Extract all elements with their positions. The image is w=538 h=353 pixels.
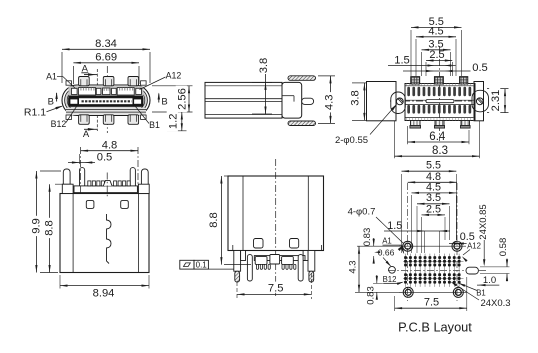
mount hole bottom-left bbox=[403, 287, 413, 297]
svg-text:0.66: 0.66 bbox=[378, 247, 395, 257]
svg-text:3.8: 3.8 bbox=[349, 90, 361, 106]
mount hole bottom-right bbox=[453, 287, 463, 297]
svg-text:B: B bbox=[48, 96, 54, 107]
dimension 4.3 side view bbox=[318, 75, 335, 77]
center block bbox=[270, 255, 280, 265]
top bar bbox=[74, 186, 137, 193]
left leg flange bbox=[241, 251, 246, 261]
hole crosshair top bbox=[399, 245, 466, 247]
body rear bbox=[228, 176, 324, 251]
flatness leader line to seating plane bbox=[208, 268, 233, 270]
PCB ladder 2.5 bbox=[421, 217, 423, 253]
dimension 6.69 bbox=[72, 66, 74, 84]
dimension 8.8 bbox=[55, 183, 72, 185]
svg-text:4.8: 4.8 bbox=[102, 140, 118, 152]
svg-text:8.8: 8.8 bbox=[208, 212, 220, 228]
bottom lead pin hatched bbox=[288, 121, 316, 126]
left mount plate bbox=[367, 82, 397, 121]
contact band tick hatch bbox=[80, 88, 81, 91]
bottom bar bbox=[254, 256, 305, 261]
lower shell band bbox=[66, 108, 146, 115]
svg-text:A12: A12 bbox=[467, 242, 481, 251]
svg-text:B1: B1 bbox=[476, 289, 486, 298]
svg-text:0.5: 0.5 bbox=[472, 62, 488, 74]
svg-text:P.C.B Layout: P.C.B Layout bbox=[398, 320, 472, 335]
center zigzag split line bbox=[107, 214, 112, 264]
left outer leg bbox=[234, 251, 241, 272]
right outer post base bbox=[138, 184, 149, 193]
label B12 with leader bbox=[382, 275, 397, 283]
svg-text:0.58: 0.58 bbox=[498, 238, 509, 257]
rear teeth left bbox=[256, 264, 258, 269]
shell bottom tabs bbox=[79, 115, 90, 125]
shell bottom end bumps bbox=[66, 115, 72, 119]
svg-text:24X0.3: 24X0.3 bbox=[480, 298, 510, 309]
svg-text:6.69: 6.69 bbox=[95, 51, 117, 63]
top edge knurl ticks bbox=[406, 84, 408, 86]
left peg hatched bbox=[235, 271, 240, 282]
svg-text:6.4: 6.4 bbox=[429, 131, 446, 143]
right outer leg bbox=[308, 251, 315, 272]
upper pad row 24X0.85 bbox=[404, 256, 407, 259]
PCB ladder 5.5 bbox=[401, 174, 403, 253]
contact band white slots bbox=[72, 88, 78, 94]
svg-text:B12: B12 bbox=[383, 275, 397, 284]
lower shell lines bbox=[66, 109, 146, 111]
dimension 2.31 front view bbox=[487, 88, 509, 90]
dimension ladder 5.5 bbox=[410, 30, 412, 76]
side wall lines bbox=[242, 176, 244, 251]
svg-text:2.31: 2.31 bbox=[490, 90, 502, 112]
svg-text:9.9: 9.9 bbox=[30, 218, 42, 234]
dimension 2.56 right bbox=[152, 85, 193, 87]
dimension ladder 3.5 bbox=[421, 52, 423, 76]
right inner post bbox=[130, 168, 135, 194]
dim 0.58 bbox=[480, 266, 510, 268]
svg-text:1.5: 1.5 bbox=[394, 55, 410, 67]
svg-text:0.83: 0.83 bbox=[366, 286, 377, 305]
center lens bbox=[426, 100, 454, 103]
body side wall left bbox=[72, 194, 74, 273]
svg-text:A: A bbox=[83, 129, 90, 140]
bottom tabs front bbox=[411, 121, 421, 126]
center hump bbox=[103, 181, 112, 186]
dimension 8.8 rear bbox=[224, 175, 231, 177]
svg-text:2.5: 2.5 bbox=[429, 49, 444, 61]
left pad block bbox=[255, 257, 267, 265]
right pad block bbox=[282, 257, 294, 265]
pad row mid guide lines bbox=[403, 260, 464, 262]
middle slot lines bbox=[405, 99, 475, 101]
right peg hatched bbox=[309, 271, 314, 282]
body seam lines bbox=[205, 98, 282, 100]
centerline vertical bbox=[439, 46, 441, 141]
svg-text:B: B bbox=[161, 96, 167, 107]
PCB ladder 3.5 bbox=[416, 206, 418, 253]
flatness feature control frame bbox=[180, 260, 194, 269]
svg-text:0.1: 0.1 bbox=[196, 260, 208, 269]
svg-text:4.3: 4.3 bbox=[347, 260, 358, 273]
left inner leg bbox=[247, 255, 252, 281]
right inner leg bbox=[298, 255, 303, 281]
left lobe bbox=[391, 92, 406, 114]
dimension 4.8 top bbox=[81, 150, 138, 152]
shell top end bumps bbox=[66, 81, 72, 85]
body side wall right bbox=[137, 194, 139, 273]
side hole phi0.66 bbox=[389, 266, 396, 273]
tongue upper bar bbox=[69, 96, 144, 98]
body bbox=[60, 194, 149, 273]
top lead pin hatched bbox=[288, 76, 316, 81]
dimension 1.2 right bbox=[167, 130, 187, 132]
hole centerline right column bbox=[456, 183, 458, 301]
dim 0.83 lower left bbox=[373, 282, 400, 284]
PCB dim 0.5 bbox=[449, 243, 470, 245]
dim 0.83 upper left bbox=[357, 245, 402, 247]
section B marker left bbox=[56, 93, 58, 102]
dimension 3.8 side view bbox=[252, 81, 272, 83]
tongue middle white row bbox=[69, 98, 144, 105]
corner step right bbox=[321, 245, 323, 251]
rear block step bbox=[282, 95, 294, 97]
upper pin row bbox=[407, 87, 410, 96]
svg-text:B12: B12 bbox=[51, 119, 67, 129]
svg-text:4.5: 4.5 bbox=[428, 25, 443, 37]
svg-text:24X0.85: 24X0.85 bbox=[478, 204, 489, 239]
svg-text:0.5: 0.5 bbox=[460, 231, 475, 243]
shell third wall bbox=[67, 90, 145, 111]
svg-text:A12: A12 bbox=[166, 71, 182, 81]
mount hole top-right bbox=[452, 241, 462, 251]
tongue lower bar bbox=[69, 105, 144, 107]
window squares bbox=[254, 239, 264, 249]
svg-text:2.5: 2.5 bbox=[426, 203, 441, 215]
shell top tabs bbox=[79, 77, 90, 86]
left screw hole bbox=[396, 98, 403, 105]
svg-text:7.5: 7.5 bbox=[424, 297, 439, 309]
svg-text:0.83: 0.83 bbox=[362, 228, 373, 247]
PCB ladder 4.8 bbox=[408, 181, 457, 183]
rear block bbox=[282, 82, 302, 118]
svg-text:2-φ0.55: 2-φ0.55 bbox=[335, 135, 368, 146]
svg-text:4-φ0.7: 4-φ0.7 bbox=[348, 207, 376, 218]
svg-text:8.8: 8.8 bbox=[43, 220, 55, 236]
svg-text:B1: B1 bbox=[149, 120, 160, 130]
section line A dashed bbox=[96, 69, 98, 85]
shell outer stadium bbox=[62, 85, 150, 116]
right mount plate bbox=[474, 82, 484, 121]
body inner lines bbox=[205, 85, 282, 87]
centerline dashdot left bbox=[80, 147, 82, 194]
shell inner stadium bbox=[65, 87, 148, 113]
svg-text:R1.1: R1.1 bbox=[24, 106, 46, 118]
svg-text:8.3: 8.3 bbox=[432, 145, 448, 157]
centerline vertical bbox=[106, 66, 108, 133]
dim 4.3 left bbox=[355, 291, 402, 293]
corner step left bbox=[232, 245, 234, 251]
top tabs front bbox=[411, 77, 420, 84]
dimension ladder 2.5 bbox=[425, 62, 427, 76]
right lobe bbox=[472, 90, 489, 112]
centerline bbox=[275, 159, 277, 298]
window square right bbox=[121, 201, 129, 209]
dimension 0.5 top bbox=[78, 154, 80, 164]
svg-text:A1: A1 bbox=[46, 71, 57, 81]
tongue center dashed contact row bbox=[82, 100, 132, 102]
dim 7.5 bottom bbox=[394, 296, 396, 311]
section B marker right bbox=[158, 94, 160, 103]
row centerline horizontal bbox=[388, 270, 486, 272]
svg-text:A1: A1 bbox=[382, 236, 392, 245]
svg-text:2.56: 2.56 bbox=[176, 88, 188, 110]
dimension 8.34 bbox=[61, 52, 63, 83]
section A marker bottom bbox=[84, 128, 97, 130]
svg-text:8.94: 8.94 bbox=[93, 288, 115, 300]
svg-text:1.2: 1.2 bbox=[167, 114, 179, 130]
dimension ladder 4.5 bbox=[415, 39, 417, 76]
svg-text:7.5: 7.5 bbox=[268, 282, 284, 294]
shell body front bbox=[405, 84, 475, 121]
hole crosshair bottom bbox=[399, 291, 467, 293]
dimension 6.4 bbox=[407, 126, 409, 144]
right leg flange bbox=[303, 251, 308, 261]
svg-text:5.5: 5.5 bbox=[426, 160, 441, 172]
lower pad row bbox=[404, 273, 407, 276]
rear teeth right bbox=[282, 264, 284, 269]
dimension 8.3 bbox=[394, 121, 396, 158]
comb teeth right group bbox=[114, 181, 117, 186]
dimension 7.5 rear bbox=[236, 282, 238, 299]
tongue left end block B12 side bbox=[69, 96, 80, 106]
centerline dashdot right bbox=[137, 147, 139, 194]
label A12 with leader bbox=[467, 241, 482, 249]
left outer post base bbox=[62, 184, 73, 193]
lower pin row bbox=[407, 105, 410, 114]
right tab pad 1.0 bbox=[466, 267, 478, 274]
dimension 9.9 bbox=[40, 170, 61, 172]
dimension 8.94 bbox=[59, 275, 61, 289]
svg-text:4.3: 4.3 bbox=[324, 95, 336, 111]
PCB ladder 4.5 bbox=[411, 195, 413, 253]
interior top contact band bbox=[69, 86, 144, 96]
rear tab bbox=[302, 98, 314, 104]
svg-text:8.34: 8.34 bbox=[95, 38, 117, 50]
dim 0.5 text bbox=[458, 230, 478, 241]
svg-text:3.5: 3.5 bbox=[426, 192, 441, 204]
mount hole top-left 4-phi0.7 bbox=[403, 241, 413, 251]
left outer post bbox=[63, 169, 70, 193]
right screw hole bbox=[476, 98, 483, 105]
leader 0.66 to side hole bbox=[383, 258, 391, 266]
hole centerline left column bbox=[407, 183, 409, 301]
centerline horizontal bbox=[390, 100, 491, 102]
tongue right end block B1 side bbox=[133, 96, 144, 106]
window square left bbox=[86, 201, 94, 209]
dimension 3.8 front view bbox=[352, 82, 367, 84]
comb teeth left group bbox=[88, 181, 91, 186]
body rectangle bbox=[205, 82, 282, 118]
left inner post bbox=[80, 168, 85, 194]
label B1 with leader bbox=[476, 288, 487, 296]
svg-text:0.5: 0.5 bbox=[97, 152, 113, 164]
svg-text:3.8: 3.8 bbox=[258, 58, 270, 74]
right outer post bbox=[141, 169, 148, 193]
centerline dashdot mid bbox=[106, 173, 108, 198]
pad column centerlines bbox=[405, 254, 407, 287]
